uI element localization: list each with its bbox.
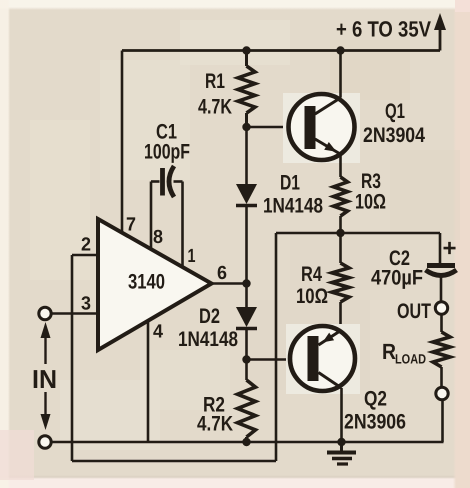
svg-text:D2: D2	[199, 305, 220, 328]
wire pin7 supply drop	[121, 51, 124, 234]
power +6 TO 35V arrow	[434, 13, 446, 51]
svg-text:1N4148: 1N4148	[263, 195, 323, 218]
terminal OUT return	[436, 387, 448, 399]
svg-text:R: R	[382, 339, 396, 364]
wire OUT to RLOAD	[440, 314, 443, 332]
wire R3 bottom lead	[339, 216, 342, 233]
svg-text:4: 4	[153, 322, 163, 343]
svg-text:Q2: Q2	[364, 388, 387, 411]
wire pin2 input	[72, 254, 98, 257]
svg-text:R4: R4	[301, 263, 322, 286]
svg-text:Q1: Q1	[385, 100, 405, 123]
wire bottom rail	[50, 441, 443, 444]
wire pin1 to C1	[181, 182, 184, 268]
node junction pin6/D1/D2	[242, 279, 250, 287]
wire Q1 emitter lead	[339, 155, 342, 178]
wire feedback rail horizontal	[276, 232, 440, 235]
transistor Q1	[283, 93, 360, 163]
svg-text:7: 7	[126, 215, 136, 236]
wire Q2 base	[247, 358, 309, 361]
wire R4 top lead	[339, 233, 342, 263]
svg-text:+: +	[443, 235, 457, 262]
capacitor C1	[151, 166, 183, 197]
wire D1 top lead	[245, 127, 248, 184]
svg-text:1: 1	[188, 246, 196, 267]
svg-text:IN: IN	[32, 364, 57, 394]
transistor Q2	[286, 324, 360, 394]
wire terminal to bottom rail	[441, 400, 444, 443]
svg-text:D1: D1	[280, 172, 300, 195]
wire pin2 drop	[71, 255, 74, 461]
node junction D2/R2/Q2-base	[242, 355, 250, 363]
wire feedback left drop	[275, 233, 278, 461]
wire R1 top lead	[245, 51, 248, 67]
svg-text:10Ω: 10Ω	[355, 191, 386, 214]
svg-text:470µF: 470µF	[371, 267, 423, 290]
svg-text:100pF: 100pF	[144, 141, 190, 164]
diode D1	[236, 184, 257, 206]
resistor R2	[238, 380, 256, 437]
wire supply rail +V	[122, 49, 440, 52]
svg-text:+ 6 TO 35V: + 6 TO 35V	[336, 17, 431, 42]
wire D1 bottom lead	[245, 206, 248, 284]
node junction ground/bottom-rail	[337, 438, 345, 446]
svg-text:2: 2	[81, 235, 91, 256]
node junction R3/R4/feedback	[336, 229, 344, 237]
wire Q1 base	[247, 126, 306, 129]
wire R2 bottom lead	[245, 437, 248, 442]
svg-text:4.7K: 4.7K	[198, 96, 232, 119]
svg-text:R1: R1	[205, 70, 225, 93]
ground	[327, 442, 356, 464]
svg-text:3140: 3140	[128, 271, 165, 294]
node junction R1/D1/Q1-base	[242, 123, 250, 131]
wire D2 top lead	[245, 284, 248, 308]
wire pin6 output	[212, 282, 247, 285]
wire C2 to OUT	[440, 276, 443, 302]
resistor R1	[238, 66, 255, 113]
node junction R1/rail	[242, 46, 250, 54]
svg-text:2N3906: 2N3906	[344, 411, 406, 434]
svg-text:2N3904: 2N3904	[363, 124, 425, 147]
svg-text:3: 3	[81, 294, 91, 315]
node junction Q1 collector/rail	[336, 46, 344, 54]
terminal IN-	[39, 436, 51, 448]
svg-text:LOAD: LOAD	[395, 352, 426, 367]
capacitor C2	[426, 266, 457, 276]
wire feedback bottom rail	[72, 460, 276, 463]
resistor R4	[332, 263, 349, 302]
wire R2 top lead	[245, 360, 248, 381]
svg-text:10Ω: 10Ω	[296, 285, 328, 308]
terminal IN+	[39, 307, 51, 319]
resistor R3	[334, 177, 348, 216]
svg-text:4.7K: 4.7K	[197, 413, 233, 436]
wire Q1 collector to rail	[339, 51, 342, 98]
svg-text:8: 8	[153, 227, 163, 248]
svg-text:1N4148: 1N4148	[178, 328, 238, 351]
wire IN arrow span	[41, 322, 51, 430]
wire pin8 to C1	[150, 182, 153, 249]
svg-text:6: 6	[217, 263, 227, 284]
wire RLOAD to terminal	[440, 367, 443, 387]
op-amp U1 3140	[98, 219, 212, 350]
wire R1 bottom lead	[245, 113, 248, 127]
wire pin3 input	[50, 312, 98, 315]
resistor RLOAD	[433, 332, 450, 367]
label RLOAD	[382, 339, 426, 367]
svg-text:OUT: OUT	[397, 300, 431, 323]
terminal OUT	[435, 302, 447, 314]
wire R4 bottom lead / Q2 emitter	[339, 302, 342, 330]
wire pin4 drop	[147, 321, 150, 443]
wire D2 bottom lead	[245, 329, 248, 360]
node junction R2/bottom-rail	[242, 438, 250, 446]
wire Q2 collector to ground rail	[340, 388, 343, 442]
diode D2	[236, 307, 257, 329]
wire feedback rail right drop to C2	[439, 233, 442, 263]
